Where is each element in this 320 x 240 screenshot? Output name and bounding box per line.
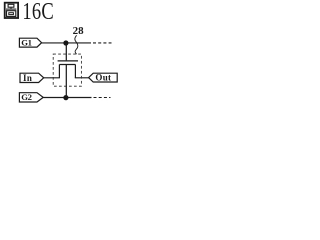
transistor channel plate xyxy=(59,64,75,66)
wire In to transistor source xyxy=(44,77,60,79)
junction node on bottom wire xyxy=(63,95,68,100)
bottom wire dashed continuation xyxy=(94,97,111,99)
junction node on top wire xyxy=(63,40,68,45)
terminal tag G2 xyxy=(19,93,43,102)
transistor bottom gate stem to G2 xyxy=(65,65,67,98)
svg-text:G2: G2 xyxy=(21,92,31,102)
svg-text:16C: 16C xyxy=(22,0,54,24)
wire transistor drain to Out xyxy=(75,77,89,79)
top wire dashed continuation xyxy=(93,42,112,44)
leader line from 28 to dashed box xyxy=(75,35,78,54)
transistor top gate plate xyxy=(58,60,78,62)
svg-text:G1: G1 xyxy=(21,38,31,48)
terminal tag In xyxy=(20,73,44,82)
terminal tag G1 xyxy=(19,38,41,47)
transistor top gate lead from node 28 xyxy=(65,43,67,60)
svg-text:28: 28 xyxy=(73,25,85,37)
transistor source leg xyxy=(58,65,60,78)
figure title glyph (CJK 圖) xyxy=(5,3,18,18)
transistor Q1 dashed outline box xyxy=(53,54,81,86)
svg-text:In: In xyxy=(23,73,32,83)
wire G2 (bottom wire) xyxy=(43,97,91,99)
wire G1 to node 28 (top wire) xyxy=(42,42,91,44)
svg-text:Out: Out xyxy=(95,73,111,83)
terminal tag Out xyxy=(89,73,118,82)
transistor drain leg xyxy=(74,65,76,78)
